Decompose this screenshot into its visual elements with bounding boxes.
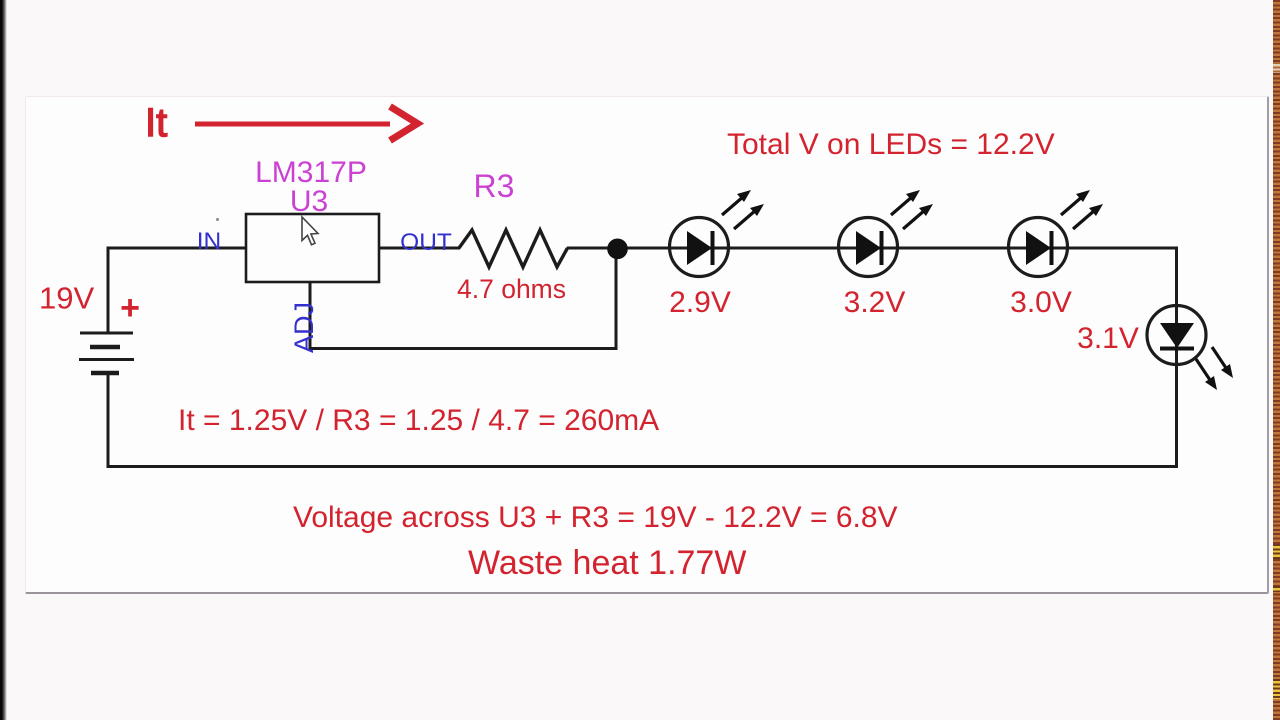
svg-text:ADJ: ADJ [289, 302, 319, 353]
svg-text:Voltage across U3 + R3 = 19V -: Voltage across U3 + R3 = 19V - 12.2V = 6… [293, 501, 898, 534]
svg-text:+: + [120, 289, 140, 327]
svg-text:Waste heat 1.77W: Waste heat 1.77W [468, 544, 746, 582]
svg-text:It: It [145, 101, 167, 145]
svg-text:3.0V: 3.0V [1010, 286, 1072, 319]
svg-text:2.9V: 2.9V [669, 286, 731, 319]
svg-text:3.2V: 3.2V [844, 286, 906, 319]
svg-text:Total V on LEDs = 12.2V: Total V on LEDs = 12.2V [727, 128, 1055, 161]
svg-text:U3: U3 [290, 185, 328, 218]
svg-text:IN: IN [197, 228, 222, 255]
svg-text:4.7 ohms: 4.7 ohms [457, 274, 566, 304]
svg-text:19V: 19V [39, 281, 94, 316]
svg-text:It = 1.25V / R3 = 1.25 / 4.7 =: It = 1.25V / R3 = 1.25 / 4.7 = 260mA [178, 404, 659, 437]
svg-text:R3: R3 [474, 168, 515, 204]
svg-text:3.1V: 3.1V [1077, 322, 1139, 355]
svg-text:OUT: OUT [400, 229, 452, 256]
